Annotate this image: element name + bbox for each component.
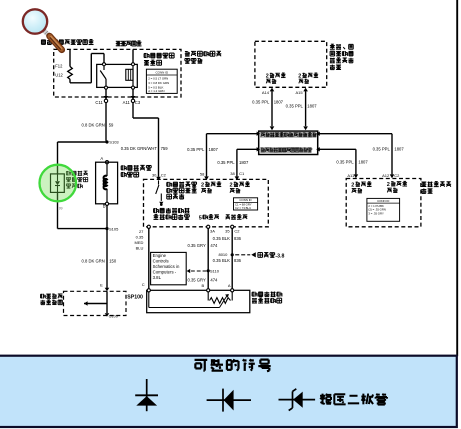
svg-text:27: 27 — [139, 229, 144, 234]
svg-text:S103: S103 — [109, 140, 119, 145]
svg-text:3 = .35 GRY: 3 = .35 GRY — [368, 211, 384, 215]
svg-text:474: 474 — [210, 243, 218, 248]
svg-text:2: 2 — [298, 74, 301, 80]
svg-text:A12: A12 — [382, 173, 390, 178]
svg-text:C2: C2 — [394, 173, 400, 178]
svg-text:0.35 GRY: 0.35 GRY — [187, 243, 206, 248]
svg-text:2: 2 — [351, 182, 354, 188]
svg-text:2: 2 — [201, 183, 204, 189]
svg-text:59: 59 — [109, 123, 114, 128]
svg-text:0.8 DK GRN: 0.8 DK GRN — [82, 123, 105, 128]
svg-text:5: 5 — [199, 215, 202, 221]
svg-text:A14: A14 — [262, 90, 270, 95]
svg-text:B: B — [103, 204, 106, 209]
svg-text:C2 = 73 BLU: C2 = 73 BLU — [235, 206, 251, 210]
svg-text:150: 150 — [109, 259, 117, 264]
svg-text:0.35 GRY: 0.35 GRY — [187, 277, 206, 282]
svg-text:0.35 DK GRN/WHT: 0.35 DK GRN/WHT — [121, 146, 158, 151]
svg-text:C2: C2 — [161, 172, 167, 177]
svg-text:B: B — [202, 283, 205, 288]
svg-text:2 = 0.5 LT GRN: 2 = 0.5 LT GRN — [148, 77, 168, 81]
svg-text:2: 2 — [387, 182, 390, 188]
svg-text:0.8 DK GRN: 0.8 DK GRN — [82, 259, 105, 264]
svg-text:C11: C11 — [95, 100, 103, 105]
svg-text:0.35 PPL: 0.35 PPL — [187, 147, 205, 152]
svg-text:S105: S105 — [109, 226, 119, 231]
svg-text:474: 474 — [210, 277, 218, 282]
svg-text:CONN ID: CONN ID — [377, 199, 389, 203]
svg-text:MED: MED — [135, 240, 144, 245]
svg-text:3 = 0.8 DK GRN: 3 = 0.8 DK GRN — [148, 81, 169, 85]
svg-text:1807: 1807 — [394, 147, 404, 152]
svg-text:E: E — [100, 282, 103, 287]
svg-text:-3.8: -3.8 — [275, 253, 284, 259]
svg-text:G100: G100 — [109, 315, 118, 319]
svg-text:A11: A11 — [347, 173, 355, 178]
svg-text:SP100: SP100 — [127, 295, 143, 301]
svg-text:8010: 8010 — [218, 252, 228, 257]
svg-text:1807: 1807 — [209, 147, 219, 152]
svg-text:C: C — [142, 282, 145, 287]
svg-text:0.35 PPL: 0.35 PPL — [336, 160, 354, 165]
svg-text:A = 1.2 GRN: A = 1.2 GRN — [148, 89, 164, 93]
svg-text:1807: 1807 — [358, 160, 368, 165]
svg-text:A15: A15 — [295, 90, 303, 95]
svg-text:0.35: 0.35 — [136, 235, 145, 240]
svg-text:0.35 PPL: 0.35 PPL — [286, 104, 304, 109]
svg-text:0.35 PPL: 0.35 PPL — [373, 147, 391, 152]
svg-text:30: 30 — [152, 172, 157, 177]
svg-text:C1: C1 — [239, 171, 245, 176]
svg-text:A11: A11 — [123, 100, 131, 105]
svg-text:3.8L: 3.8L — [153, 275, 162, 280]
svg-text:A: A — [228, 283, 231, 288]
svg-text:0.35 BLK: 0.35 BLK — [213, 258, 230, 263]
svg-text:U12: U12 — [55, 73, 63, 78]
svg-text:2: 2 — [230, 183, 233, 189]
svg-text:CONN ID: CONN ID — [155, 70, 169, 74]
svg-text:0.35 PPL: 0.35 PPL — [217, 160, 235, 165]
svg-text:35: 35 — [225, 229, 230, 234]
svg-text:1807: 1807 — [307, 104, 317, 109]
svg-text:BLU: BLU — [136, 245, 144, 250]
svg-text:836: 836 — [234, 236, 242, 241]
svg-text:Computers -: Computers - — [153, 269, 177, 274]
svg-text:0.35 PPL: 0.35 PPL — [252, 99, 270, 104]
svg-text:0.35 BLK: 0.35 BLK — [213, 236, 230, 241]
svg-text:58: 58 — [200, 171, 205, 176]
svg-text:A: A — [100, 156, 103, 161]
svg-text:Schematics in: Schematics in — [153, 264, 180, 269]
svg-text:C3: C3 — [135, 100, 141, 105]
svg-text:99: 99 — [59, 207, 63, 211]
svg-text:C2: C2 — [234, 229, 240, 234]
svg-text:38: 38 — [230, 171, 235, 176]
svg-text:Engine: Engine — [153, 253, 167, 258]
svg-text:3A: 3A — [210, 229, 215, 234]
svg-text:S110: S110 — [210, 268, 220, 273]
svg-text:F12: F12 — [55, 64, 63, 69]
svg-text:759: 759 — [161, 146, 169, 151]
svg-text:1807: 1807 — [274, 99, 284, 104]
svg-text:Controls: Controls — [153, 259, 169, 264]
svg-text:836: 836 — [234, 258, 242, 263]
svg-text:1807: 1807 — [239, 160, 249, 165]
svg-text:CONN ID: CONN ID — [239, 198, 251, 202]
svg-text:2: 2 — [266, 74, 269, 80]
